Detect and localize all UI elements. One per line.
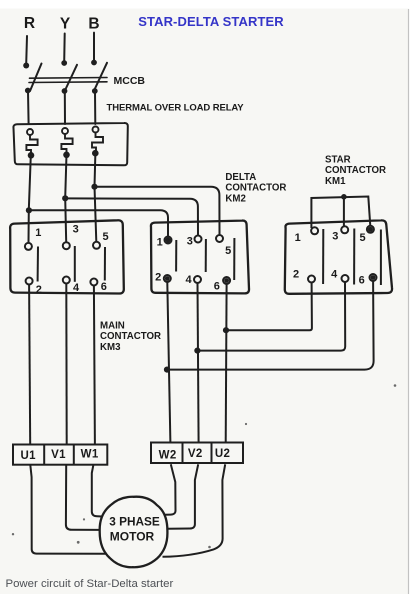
svg-text:3: 3 <box>332 231 338 243</box>
svg-text:Power circuit of Star-Delta st: Power circuit of Star-Delta starter <box>6 578 174 590</box>
svg-text:2: 2 <box>293 269 299 281</box>
svg-text:R: R <box>24 15 35 32</box>
svg-text:U1: U1 <box>20 450 36 462</box>
svg-text:STAR-DELTA STARTER: STAR-DELTA STARTER <box>138 14 284 29</box>
svg-text:5: 5 <box>103 231 109 243</box>
svg-text:2: 2 <box>36 284 42 296</box>
svg-text:CONTACTOR: CONTACTOR <box>225 183 286 194</box>
svg-text:W1: W1 <box>81 449 99 461</box>
svg-text:KM2: KM2 <box>225 193 245 204</box>
svg-text:THERMAL OVER LOAD RELAY: THERMAL OVER LOAD RELAY <box>107 103 245 114</box>
svg-text:MOTOR: MOTOR <box>110 530 155 544</box>
svg-text:STAR: STAR <box>325 155 351 166</box>
svg-text:2: 2 <box>155 271 161 283</box>
svg-text:6: 6 <box>359 275 365 287</box>
svg-text:KM1: KM1 <box>325 176 346 187</box>
svg-text:W2: W2 <box>159 450 177 462</box>
svg-text:MAIN: MAIN <box>100 320 125 331</box>
svg-text:1: 1 <box>35 227 41 239</box>
svg-text:4: 4 <box>73 282 80 294</box>
svg-text:B: B <box>88 16 99 33</box>
svg-text:6: 6 <box>214 281 220 293</box>
svg-text:CONTACTOR: CONTACTOR <box>100 331 161 342</box>
svg-text:V1: V1 <box>51 449 66 461</box>
svg-text:5: 5 <box>225 245 231 257</box>
svg-text:Y: Y <box>60 16 71 33</box>
svg-text:1: 1 <box>157 237 163 249</box>
svg-text:V2: V2 <box>188 448 203 460</box>
svg-text:3: 3 <box>187 236 193 248</box>
svg-text:4: 4 <box>186 274 193 286</box>
svg-text:5: 5 <box>359 232 365 244</box>
svg-text:DELTA: DELTA <box>225 172 256 183</box>
svg-text:CONTACTOR: CONTACTOR <box>325 165 386 176</box>
svg-text:4: 4 <box>331 269 338 281</box>
svg-text:MCCB: MCCB <box>114 75 146 87</box>
svg-text:3: 3 <box>73 224 79 236</box>
svg-text:3 PHASE: 3 PHASE <box>109 515 160 529</box>
svg-text:U2: U2 <box>215 448 231 460</box>
svg-text:1: 1 <box>295 232 301 244</box>
svg-text:KM3: KM3 <box>100 342 121 353</box>
svg-text:6: 6 <box>101 281 107 293</box>
